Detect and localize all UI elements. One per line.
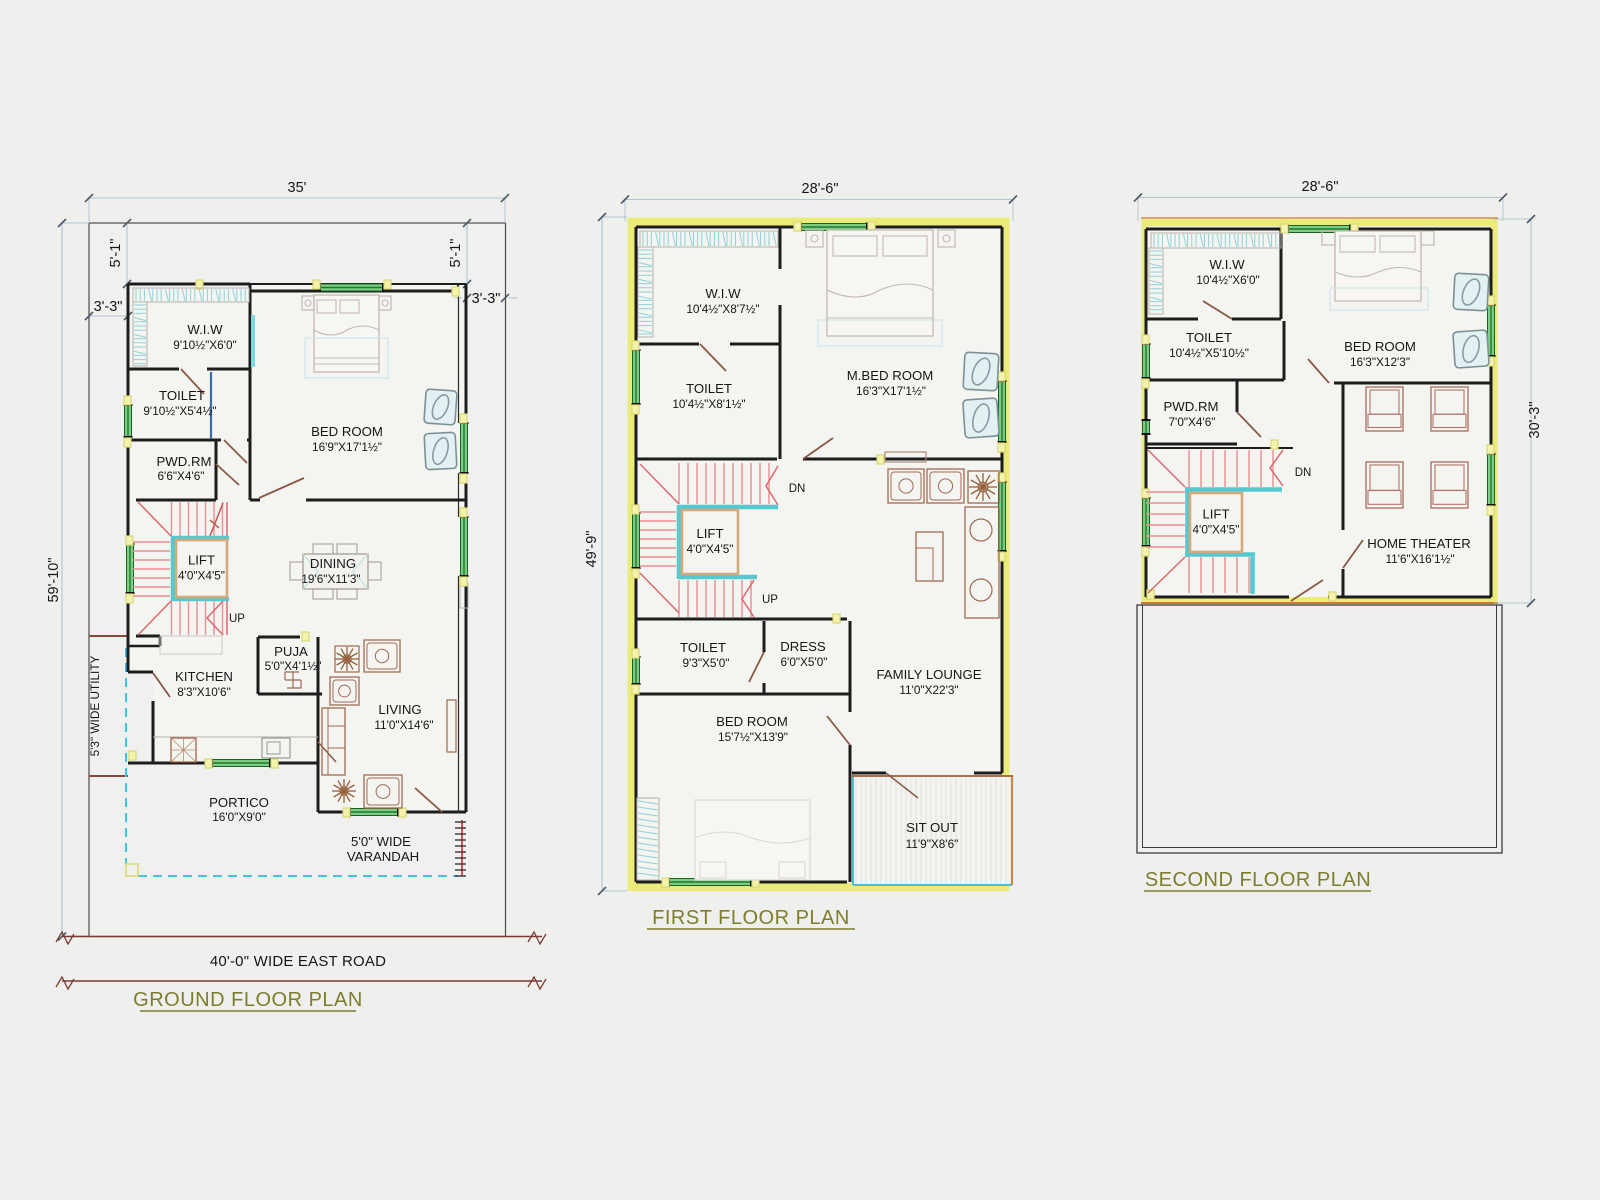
svg-text:TOILET: TOILET	[680, 640, 726, 655]
svg-text:9'10½"X5'4½": 9'10½"X5'4½"	[143, 404, 216, 418]
SF yellow marks	[1281, 224, 1288, 233]
svg-text:30'-3": 30'-3"	[1527, 402, 1543, 439]
svg-text:UP: UP	[762, 594, 778, 606]
svg-text:4'0"X4'5": 4'0"X4'5"	[1193, 523, 1240, 537]
svg-text:PORTICO: PORTICO	[209, 795, 269, 810]
FF M.bed furniture	[827, 230, 933, 336]
svg-text:4'0"X4'5": 4'0"X4'5"	[687, 542, 734, 556]
svg-text:59'-10": 59'-10"	[46, 557, 62, 602]
SF dimension 30'-3"	[1494, 218, 1531, 220]
svg-text:BED ROOM: BED ROOM	[1344, 339, 1416, 354]
dimension 59'-10" left	[62, 222, 89, 224]
FF sit out floor hatch	[852, 775, 1013, 886]
svg-text:LIVING: LIVING	[378, 702, 421, 717]
lift GF	[176, 540, 227, 597]
FF W.I.W closet hatch	[640, 231, 778, 247]
FF house fill	[636, 227, 1002, 882]
svg-text:10'4½"X8'7½": 10'4½"X8'7½"	[686, 302, 759, 316]
svg-text:BED ROOM: BED ROOM	[716, 714, 788, 729]
svg-text:4'0"X4'5": 4'0"X4'5"	[178, 569, 225, 583]
GF living sofa set	[335, 646, 359, 672]
GF dining table & chairs	[303, 554, 368, 589]
svg-text:LIFT: LIFT	[188, 553, 215, 568]
stair direction arrow	[206, 503, 223, 546]
SF lift cyan	[1185, 487, 1282, 492]
svg-text:PUJA: PUJA	[274, 644, 308, 659]
dimension 5'-1" right	[466, 223, 468, 284]
W.I.W cyan panel	[251, 315, 255, 367]
svg-text:BED ROOM: BED ROOM	[311, 424, 383, 439]
svg-text:28'-6": 28'-6"	[802, 181, 839, 197]
GF bedroom chairs	[424, 389, 457, 425]
svg-text:16'9"X17'1½": 16'9"X17'1½"	[312, 440, 382, 454]
svg-text:19'6"X11'3": 19'6"X11'3"	[301, 572, 360, 586]
svg-text:PWD.RM: PWD.RM	[1164, 399, 1219, 414]
SF home theater chairs	[1366, 387, 1403, 431]
SF lift	[1190, 493, 1242, 552]
svg-text:M.BED ROOM: M.BED ROOM	[847, 368, 933, 383]
svg-text:10'4½"X6'0": 10'4½"X6'0"	[1196, 273, 1259, 287]
svg-text:W.I.W: W.I.W	[187, 322, 223, 337]
FF sit out cyan border	[852, 775, 854, 885]
FF yellow marks	[794, 222, 801, 231]
puja room walls	[258, 636, 300, 639]
svg-text:8'3"X10'6": 8'3"X10'6"	[177, 685, 231, 699]
svg-text:HOME THEATER: HOME THEATER	[1367, 536, 1471, 551]
svg-text:7'0"X4'6": 7'0"X4'6"	[1169, 415, 1216, 429]
svg-text:11'0"X22'3": 11'0"X22'3"	[899, 683, 958, 697]
svg-text:GROUND FLOOR PLAN: GROUND FLOOR PLAN	[133, 989, 363, 1011]
svg-text:KITCHEN: KITCHEN	[175, 669, 233, 684]
yellow lintel marks	[313, 280, 320, 289]
svg-text:28'-6": 28'-6"	[1302, 179, 1339, 195]
svg-text:5'0" WIDE: 5'0" WIDE	[351, 834, 411, 849]
svg-text:LIFT: LIFT	[696, 526, 723, 541]
svg-text:3'-3": 3'-3"	[94, 299, 123, 315]
FF doors	[700, 344, 726, 371]
svg-text:11'9"X8'6": 11'9"X8'6"	[906, 837, 959, 851]
svg-text:3'-3": 3'-3"	[472, 291, 501, 307]
SF bedroom furniture	[1335, 231, 1421, 301]
svg-text:TOILET: TOILET	[1186, 330, 1232, 345]
svg-text:10'4½"X8'1½": 10'4½"X8'1½"	[672, 397, 745, 411]
svg-text:DRESS: DRESS	[780, 639, 826, 654]
kitchen counter, stove, sink	[153, 736, 318, 738]
GF windows	[320, 284, 383, 291]
FF dimension 28'-6"	[624, 199, 626, 221]
svg-text:11'0"X14'6": 11'0"X14'6"	[374, 718, 433, 732]
svg-text:UP: UP	[229, 613, 245, 625]
swastik symbol	[285, 672, 301, 688]
svg-text:SIT OUT: SIT OUT	[906, 820, 958, 835]
svg-text:TOILET: TOILET	[686, 381, 732, 396]
utility: 5'3" wide utility strip	[89, 635, 128, 637]
svg-text:49'-9": 49'-9"	[584, 531, 600, 568]
svg-text:DN: DN	[1295, 467, 1312, 479]
under-stair faint landing	[160, 636, 222, 654]
varandah right red edge + steps comb	[461, 820, 463, 876]
svg-text:FAMILY LOUNGE: FAMILY LOUNGE	[876, 667, 981, 682]
svg-text:10'4½"X5'10½": 10'4½"X5'10½"	[1169, 346, 1249, 360]
FF windows	[801, 224, 867, 231]
svg-text:LIFT: LIFT	[1202, 507, 1229, 522]
portico dashed cyan boundary	[125, 648, 127, 864]
FF dimension 49'-9"	[602, 216, 627, 218]
svg-text:35': 35'	[288, 180, 307, 196]
SF house fill	[1146, 229, 1491, 597]
FF bedroom2 furniture	[637, 798, 659, 880]
svg-text:5'3" WIDE UTILITY: 5'3" WIDE UTILITY	[88, 655, 102, 756]
GF outer and inner walls	[128, 283, 250, 286]
svg-text:FIRST FLOOR PLAN: FIRST FLOOR PLAN	[652, 907, 850, 929]
svg-text:16'3"X17'1½": 16'3"X17'1½"	[856, 384, 926, 398]
W.I.W closet hatch	[133, 288, 249, 302]
svg-text:40'-0" WIDE EAST ROAD: 40'-0" WIDE EAST ROAD	[210, 953, 386, 970]
FF yellow outer band	[632, 222, 1006, 888]
SF yellow outer band + orange edges	[1145, 223, 1494, 600]
svg-text:11'6"X16'1½": 11'6"X16'1½"	[1385, 552, 1454, 566]
GF door leaves	[181, 369, 204, 394]
svg-text:PWD.RM: PWD.RM	[157, 454, 212, 469]
GF lift cyan surround	[173, 536, 229, 541]
svg-text:9'10½"X6'0": 9'10½"X6'0"	[173, 338, 236, 352]
FF lift cyan	[679, 505, 778, 510]
svg-text:W.I.W: W.I.W	[1209, 257, 1245, 272]
GF staircase	[172, 502, 223, 536]
dimension 5'-1" left	[126, 223, 128, 284]
svg-text:6'6"X4'6": 6'6"X4'6"	[158, 469, 205, 483]
FF staircase	[679, 463, 769, 504]
svg-text:VARANDAH: VARANDAH	[347, 849, 419, 864]
ground floor: house room fill	[128, 284, 466, 812]
SF dimension 28'-6"	[1137, 197, 1139, 221]
road dimension lines + label	[62, 936, 542, 938]
svg-text:DINING: DINING	[310, 556, 356, 571]
svg-text:W.I.W: W.I.W	[705, 286, 741, 301]
svg-text:5'-1": 5'-1"	[448, 239, 464, 268]
dimension 35' top	[88, 198, 90, 223]
svg-text:SECOND FLOOR PLAN: SECOND FLOOR PLAN	[1145, 869, 1371, 891]
ground floor: plot boundary	[89, 223, 506, 937]
dimension 3'-3" left	[89, 315, 128, 317]
SF terrace below	[1137, 605, 1502, 853]
SF staircase	[1189, 450, 1273, 487]
SF windows	[1288, 226, 1350, 233]
svg-text:DN: DN	[789, 483, 806, 495]
FF lift	[682, 510, 738, 574]
SF W.I.W closet hatch	[1151, 233, 1281, 248]
svg-text:15'7½"X13'9": 15'7½"X13'9"	[718, 730, 788, 744]
GF bed	[314, 295, 379, 372]
SF walls	[1146, 228, 1491, 231]
svg-text:16'0"X9'0": 16'0"X9'0"	[212, 810, 266, 824]
svg-text:5'-1": 5'-1"	[108, 239, 124, 268]
svg-text:9'3"X5'0": 9'3"X5'0"	[683, 656, 730, 670]
svg-text:6'0"X5'0": 6'0"X5'0"	[781, 655, 828, 669]
svg-text:16'3"X12'3": 16'3"X12'3"	[1350, 355, 1410, 369]
FF walls	[636, 226, 1002, 229]
svg-text:TOILET: TOILET	[159, 388, 205, 403]
FF family lounge furniture	[885, 452, 926, 462]
SF doors	[1203, 301, 1232, 319]
svg-text:5'0"X4'1½": 5'0"X4'1½"	[265, 659, 322, 673]
dimension 3'-3" right	[455, 297, 462, 299]
